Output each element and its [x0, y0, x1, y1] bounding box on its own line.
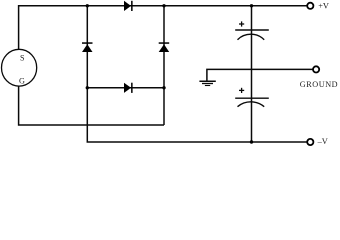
- diode D4 on middle wire, pointing right: [124, 83, 133, 93]
- diode D3 on right branch, pointing up: [159, 42, 170, 52]
- label + polarity of C2: [239, 88, 244, 93]
- terminal +V: [307, 3, 313, 9]
- wire top rail from top-left corner to +V terminal: [19, 6, 307, 50]
- node junction top rail / right branch: [162, 4, 165, 7]
- wire source bottom lead down to lower return wire: [19, 86, 164, 125]
- wire middle wire between bridge branches: [87, 87, 164, 89]
- capacitor C1 (upper electrolytic): [235, 30, 269, 40]
- svg-text:–V: –V: [317, 137, 328, 146]
- generator G1 source circle: [2, 49, 37, 86]
- svg-text:S: S: [20, 54, 25, 63]
- wire ground tap to GROUND terminal: [207, 69, 313, 80]
- node junction top rail / C1 lead: [250, 4, 253, 7]
- svg-text:+V: +V: [318, 1, 329, 10]
- ground: [199, 81, 215, 85]
- wire capacitor string vertical lead: [251, 6, 253, 142]
- svg-text:G: G: [19, 77, 25, 86]
- wire right bridge branch (x=164) from top rail down to return wire: [163, 6, 165, 125]
- capacitor C2 (lower electrolytic): [235, 98, 269, 107]
- node junction -V rail / C2 lead: [250, 140, 253, 143]
- diode D1 on top rail, pointing right: [124, 1, 133, 11]
- svg-text:GROUND: GROUND: [300, 80, 338, 89]
- diode D2 on left branch, pointing up: [82, 42, 93, 52]
- node junction middle wire / right branch: [162, 86, 165, 89]
- node junction top rail / left branch: [86, 4, 89, 7]
- terminal GROUND: [313, 66, 319, 72]
- wire left bridge branch (x=87.3) from top rail down to -V rail corner: [87, 6, 306, 142]
- label + polarity of C1: [239, 21, 244, 26]
- terminal -V: [307, 139, 313, 145]
- node junction middle wire / left branch: [86, 86, 89, 89]
